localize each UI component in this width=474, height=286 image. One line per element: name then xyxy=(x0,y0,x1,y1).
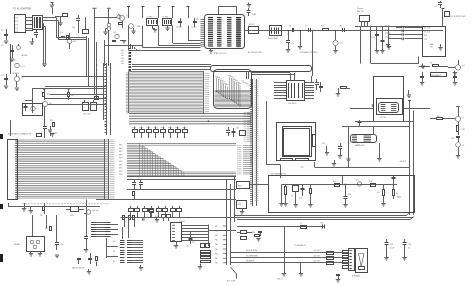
wire U7 drop to ground right xyxy=(377,143,381,161)
routing channel rounded box xyxy=(214,70,252,109)
wire left edge of keyboard area xyxy=(10,120,12,136)
svg-text:C? 0.1: C? 0.1 xyxy=(20,66,25,68)
svg-text:n: n xyxy=(97,64,98,66)
svg-text:D5: D5 xyxy=(462,145,464,147)
wire x315 drop xyxy=(314,162,316,168)
line filter T1 xyxy=(33,16,43,30)
capacitor C1 with ground xyxy=(10,45,14,62)
transistor Q11 in sub box xyxy=(31,106,35,110)
wire main audio line y30 xyxy=(244,30,443,32)
wire frame mid-left xyxy=(25,89,107,114)
capacitor C15 above matrix xyxy=(43,112,47,138)
wire rails to main connector xyxy=(22,77,106,105)
component box B2 xyxy=(237,201,247,209)
svg-text:C23: C23 xyxy=(451,138,454,140)
svg-text:TO SERIAL I/O: TO SERIAL I/O xyxy=(294,244,307,247)
svg-text:K3: K3 xyxy=(113,256,115,258)
ground below matrix 2 xyxy=(29,206,33,213)
capacitor C25 below junction xyxy=(343,185,351,208)
svg-text:Q5: Q5 xyxy=(21,77,24,79)
crystal X1 with box xyxy=(147,17,158,33)
resistor R12 above matrix xyxy=(50,120,55,127)
connector J2 power switch xyxy=(360,16,370,27)
svg-text:R22: R22 xyxy=(45,228,48,230)
svg-text:C13: C13 xyxy=(1,75,4,77)
crystal Y1 ground top xyxy=(247,3,251,8)
wire rail y108 right xyxy=(350,108,430,110)
power rail x94 with flag xyxy=(93,8,97,40)
ground top-left xyxy=(50,5,54,14)
rail y199 xyxy=(96,199,236,201)
svg-text:XTAL: XTAL xyxy=(252,13,256,16)
diode D3 boxed in generator xyxy=(291,185,299,208)
svg-text:RESET: RESET xyxy=(14,244,21,246)
left margin mark 1 xyxy=(1,135,3,139)
capacitor C18 right of U3 xyxy=(319,82,323,92)
svg-text:LCD OUT: LCD OUT xyxy=(313,250,320,252)
svg-text:32 KHZ: 32 KHZ xyxy=(163,17,169,19)
svg-text:232: 232 xyxy=(430,47,433,49)
bus matrix lower horizontal lines xyxy=(127,144,236,176)
ground under Q4 xyxy=(453,71,457,76)
IC U6 reset body xyxy=(27,237,45,252)
wire bundle down to pin column xyxy=(131,44,137,50)
ground left margin xyxy=(1,41,8,47)
capacitor row C46 row4 xyxy=(385,37,422,40)
ground beside D7 xyxy=(103,29,107,35)
wire pullup rows left join xyxy=(389,31,397,47)
label ACTIVE FILTER xyxy=(248,51,262,54)
wire branch y17 to transistor xyxy=(95,17,118,19)
wire from B1 right xyxy=(250,184,268,186)
junction dot generator rail xyxy=(345,184,347,186)
svg-text:K1: K1 xyxy=(113,246,115,248)
CPU U1 pin name column 4 xyxy=(236,18,241,47)
svg-text:K0: K0 xyxy=(113,241,115,243)
power flags row above oscillator parts xyxy=(127,7,190,19)
svg-text:C38: C38 xyxy=(408,244,411,246)
ground below B2 xyxy=(240,208,244,214)
pin header H2 dual row xyxy=(120,241,143,263)
svg-text:n: n xyxy=(97,86,98,88)
signal line WHITE xyxy=(231,261,348,263)
connector J1 ac adapter xyxy=(15,15,34,33)
outer board box bottom edge xyxy=(237,217,414,220)
sub-board box outline right xyxy=(374,77,404,122)
capacitor C48 on box left edge xyxy=(372,104,374,107)
resistor R10 network xyxy=(43,89,51,100)
svg-text:VALUE SELECT: VALUE SELECT xyxy=(72,267,86,270)
capacitor C35 with ground xyxy=(256,232,262,242)
capacitor C36 below lines xyxy=(336,275,340,283)
ground bottom area xyxy=(87,269,91,274)
resistor R22b vertical right in generator xyxy=(393,185,399,200)
transistor Q8 on rail xyxy=(356,180,362,187)
power flag top-left xyxy=(51,3,54,6)
resistor R4 on line xyxy=(321,26,329,31)
wire long bus y217 xyxy=(121,217,414,219)
svg-text:C37: C37 xyxy=(390,244,393,246)
wire from U4 down-left xyxy=(371,57,419,64)
connector CN2 keyboard pins xyxy=(15,140,18,198)
svg-text:VADJ: VADJ xyxy=(397,196,401,199)
svg-text:C3 0.1: C3 0.1 xyxy=(176,27,182,29)
capacitor C49 on bus xyxy=(143,217,145,221)
svg-text:C24: C24 xyxy=(299,198,302,200)
junction dot on rail xyxy=(208,120,210,122)
resistor R9 bottom right corner area xyxy=(419,63,448,67)
inner board box bottom edge xyxy=(234,213,410,216)
svg-text:R21: R21 xyxy=(377,192,380,194)
capacitor C29 bottom area xyxy=(77,259,81,265)
zener D4 in generator xyxy=(308,185,312,208)
svg-text:C10: C10 xyxy=(371,37,374,39)
small box below x85 xyxy=(83,17,89,33)
pin labels under matrix xyxy=(22,203,108,205)
label XTAL OSC under CPU xyxy=(214,52,227,55)
svg-text:VOLUME CONTROL: VOLUME CONTROL xyxy=(300,52,318,54)
speaker SP1 xyxy=(352,249,368,278)
connector CN4 central double rail xyxy=(250,79,257,206)
vertical wire x103 long xyxy=(103,63,105,120)
svg-text:C9: C9 xyxy=(291,43,293,45)
wire left branch y45.5 xyxy=(104,45,143,47)
capacitor C14 in sub box xyxy=(24,104,28,111)
resistor R25 right rail xyxy=(94,95,99,100)
wire entries into central connector upper xyxy=(244,113,253,142)
LCD bottom small box 2 xyxy=(296,159,309,161)
resistor R15 right of U3 xyxy=(341,87,351,89)
capacitor C22 top right mid 2 xyxy=(453,72,457,85)
svg-text:RX_OUT: RX_OUT xyxy=(424,28,430,30)
bus staircase vertical drops xyxy=(140,144,184,177)
svg-text:A0: A0 xyxy=(122,49,124,52)
svg-text:A1: A1 xyxy=(122,52,124,55)
resistor R23 bottom area xyxy=(96,257,98,267)
capacitor C6 on line xyxy=(287,26,294,36)
svg-text:D3: D3 xyxy=(291,196,293,198)
bus region left pin ticks xyxy=(126,73,129,113)
capacitor C24 in generator xyxy=(299,185,305,201)
capacitor C4 xyxy=(191,18,197,29)
connector CN3 right pin column of matrix xyxy=(105,139,115,200)
wire drops from matrix area xyxy=(33,215,57,240)
capacitor C9 drop with ground xyxy=(286,30,294,52)
LED indicator circle below matrix xyxy=(84,210,100,214)
ground on bus xyxy=(155,217,159,222)
svg-text:LCD OUT: LCD OUT xyxy=(313,255,320,257)
signal line GREEN xyxy=(231,255,348,257)
IC U3 top wires xyxy=(252,73,295,81)
svg-text:LCD CONTROLLER: LCD CONTROLLER xyxy=(450,16,466,18)
label Power Switch xyxy=(357,7,365,13)
ground near C15 xyxy=(48,126,52,133)
svg-text:Q8: Q8 xyxy=(356,180,358,182)
svg-text:SW On: SW On xyxy=(357,11,365,13)
svg-text:R17: R17 xyxy=(437,116,440,118)
svg-text:+5V SUP: +5V SUP xyxy=(399,161,407,163)
capacitor row C43 row1 xyxy=(385,26,422,29)
transistor Q10 below J1 xyxy=(17,44,29,57)
diode D1 cluster xyxy=(60,32,69,40)
ground below matrix 1 xyxy=(22,203,26,211)
keyboard matrix wires xyxy=(18,140,105,198)
svg-text:TX_OUT: TX_OUT xyxy=(424,31,430,33)
IC U7 small dip right of LCD xyxy=(351,135,377,147)
vertical rails x409 x414 xyxy=(410,100,414,215)
CPU U1 refdes label xyxy=(196,19,198,21)
LED D5b in right column xyxy=(456,143,465,159)
capacitor C2 left margin xyxy=(1,29,8,40)
pin column left of sheet center xyxy=(129,49,132,71)
wire filter ground returns xyxy=(43,24,46,64)
svg-text:(7): (7) xyxy=(1,45,4,47)
capacitor C26 to top edge xyxy=(392,176,396,185)
capacitor C11 with ground xyxy=(380,27,384,54)
wire vertical from box top to rail xyxy=(342,176,344,185)
connector CN1 pin stubs column xyxy=(105,63,111,135)
wire x86 down xyxy=(86,200,88,238)
terminator resistor column 1 xyxy=(327,252,334,265)
wire branch down from audio line to U3 area xyxy=(312,30,314,76)
resistor R24 xyxy=(252,232,260,237)
svg-text:BACKLIGHT: BACKLIGHT xyxy=(355,144,365,147)
ground x284 bottom xyxy=(277,274,286,281)
svg-text:(G) GREEN/WH: (G) GREEN/WH xyxy=(246,255,258,257)
bus line end labels right of block xyxy=(205,73,210,112)
ground filter return xyxy=(42,64,46,67)
capacitor C28 on x86 xyxy=(84,237,88,253)
svg-text:Q3: Q3 xyxy=(340,43,343,45)
svg-text:Q7: Q7 xyxy=(462,117,464,119)
routing channel horizontal bundle xyxy=(215,90,253,107)
LCD bottom small box 1 xyxy=(281,159,293,161)
wires pipe down to connector xyxy=(247,71,249,79)
ground below U6 1 xyxy=(29,251,33,256)
svg-text:104: 104 xyxy=(186,246,189,248)
svg-text:A5: A5 xyxy=(122,62,124,65)
svg-text:C4 0.1: C4 0.1 xyxy=(191,27,197,29)
wire entries into central connector lower xyxy=(237,146,252,175)
ground below CN5 xyxy=(174,242,178,248)
left margin mark 2 xyxy=(1,205,3,209)
wire x104 down xyxy=(104,40,106,66)
svg-text:R3 1K: R3 1K xyxy=(249,24,255,26)
svg-text:J5 AUX: J5 AUX xyxy=(179,220,186,223)
left margin mark 3 xyxy=(1,255,3,262)
transistor cluster lower left xyxy=(112,32,126,43)
wire rail x360 down xyxy=(361,27,371,64)
IC U5 label xyxy=(380,117,387,119)
capacitor C3 xyxy=(176,18,182,29)
wire stub left y16 xyxy=(55,14,68,26)
pin labels column bottom-middle xyxy=(215,177,235,266)
fuse F1 1A 250V xyxy=(11,44,26,74)
junction dots on audio line xyxy=(287,30,289,32)
svg-text:ACTIVE FILTER: ACTIVE FILTER xyxy=(248,51,262,54)
svg-text:Power: Power xyxy=(357,7,363,10)
svg-text:16 MHZ: 16 MHZ xyxy=(147,17,153,19)
ground under R9 xyxy=(421,64,425,69)
bus conduit rounded pipe xyxy=(211,66,312,72)
resistor R19 on rail xyxy=(333,181,340,187)
wire generator internal rail xyxy=(282,184,398,186)
svg-text:1A 250V: 1A 250V xyxy=(21,54,28,57)
label SHIFT REG xyxy=(12,73,19,75)
routing channel staggered verticals group A xyxy=(215,76,228,99)
sub box mid-left xyxy=(23,104,43,116)
svg-text:C7: C7 xyxy=(305,26,307,28)
svg-text:F1: F1 xyxy=(14,60,16,62)
connector CN2 keyboard body xyxy=(8,140,18,200)
transistor Q3 with ground xyxy=(333,30,343,53)
wire diagonal bottom-middle xyxy=(231,267,237,279)
transistor Q13 right xyxy=(117,15,121,19)
svg-text:R11: R11 xyxy=(71,95,74,97)
wire x348 from right area xyxy=(348,140,350,168)
svg-text:C50: C50 xyxy=(72,27,75,29)
svg-text:n: n xyxy=(97,76,98,78)
svg-text:n: n xyxy=(97,69,98,71)
ground inside U4 xyxy=(438,44,442,50)
connector CN6 output xyxy=(349,249,355,271)
diode D2 below matrix xyxy=(40,203,45,217)
resistor R14 on rail y189 xyxy=(133,192,135,200)
svg-text:K4: K4 xyxy=(113,261,115,263)
capacitor C8 on line xyxy=(339,26,345,33)
power flag above right rails xyxy=(408,100,411,102)
svg-text:RTS: RTS xyxy=(424,35,427,37)
wires into bus pipe from left xyxy=(132,65,211,70)
power flag far right xyxy=(442,9,445,27)
ground right of U3 xyxy=(336,88,340,96)
component cluster below routing channel xyxy=(226,127,246,137)
svg-text:C27: C27 xyxy=(60,244,63,246)
capacitor C37 bottom right xyxy=(384,239,394,260)
svg-text:C33: C33 xyxy=(320,223,323,225)
label bottom-middle xyxy=(227,280,236,283)
resistor R13 below matrix with box xyxy=(66,207,84,218)
IC U3 lcd driver body xyxy=(287,81,305,101)
wire left of LCD down xyxy=(266,101,281,178)
diode row D6 bottom-left-of-right xyxy=(237,231,252,240)
capacitor C17 right of U3 xyxy=(315,79,319,90)
label RESET left of U6 xyxy=(14,244,21,246)
wire rail x94 down xyxy=(95,40,97,99)
wires from H1 right xyxy=(111,225,119,235)
small box above bus xyxy=(150,210,154,218)
capacitor C21 top right mid xyxy=(420,72,424,85)
svg-text:XTAL: XTAL xyxy=(137,25,141,28)
label backlight mid right xyxy=(355,144,365,147)
wire rail y121 right xyxy=(355,121,414,123)
svg-text:A2: A2 xyxy=(122,54,124,57)
svg-text:R9: R9 xyxy=(430,63,432,65)
svg-text:C12: C12 xyxy=(434,6,437,8)
resistor R18 in generator xyxy=(283,185,287,207)
svg-text:TO AC ADAPTER: TO AC ADAPTER xyxy=(13,8,32,11)
capacitor C31 left of stack xyxy=(186,231,193,248)
CPU U1 pin name column 1 xyxy=(208,18,213,47)
svg-text:LCD MOD: LCD MOD xyxy=(288,103,297,105)
IC U3 right pins xyxy=(304,83,314,99)
label +5V near rails xyxy=(399,161,407,163)
wire x284 drop xyxy=(284,227,286,274)
junction dots rail y89 xyxy=(43,89,45,91)
svg-text:R24: R24 xyxy=(252,232,255,234)
ground right of LCD 2 xyxy=(332,160,336,166)
inductor L2 on y226 xyxy=(300,223,307,229)
label under LCD xyxy=(300,167,304,169)
wire CPU top pins up xyxy=(219,6,238,14)
svg-text:0.1: 0.1 xyxy=(408,248,410,250)
power flag above Q7 xyxy=(456,107,460,117)
LCD screen bezel outer xyxy=(283,127,312,157)
LCD screen bezel inner xyxy=(284,129,310,156)
label right inside generator xyxy=(397,196,401,199)
bus lines continuing between blocks xyxy=(129,114,251,124)
capacitor C30 bottom area xyxy=(88,253,92,264)
rail y179 with parts xyxy=(127,179,236,181)
net labels left of H2 xyxy=(113,241,115,263)
svg-text:C34 0.1: C34 0.1 xyxy=(277,279,283,281)
boxed part top right mid xyxy=(431,73,447,78)
wires below matrix xyxy=(8,203,100,207)
resistor R21 vertical in generator xyxy=(377,185,386,207)
diode pair D7 on x109 xyxy=(107,23,110,66)
svg-text:A/D CONV: A/D CONV xyxy=(227,280,236,283)
terminator resistor column 2 xyxy=(343,251,349,269)
svg-text:47uF: 47uF xyxy=(390,248,394,250)
routing channel right labels xyxy=(241,81,253,87)
svg-text:REG: REG xyxy=(238,186,242,188)
capacitor C16 pair on rail xyxy=(132,180,143,190)
svg-text:C25: C25 xyxy=(348,194,351,196)
ground under signal line W xyxy=(299,263,303,277)
capacitor C41 above rail xyxy=(358,120,362,127)
wire +12V rail down xyxy=(87,36,89,87)
connector CN5 body xyxy=(171,220,209,242)
svg-text:K2: K2 xyxy=(113,251,115,253)
svg-text:CTS: CTS xyxy=(424,39,427,41)
relay pair boxes K2 xyxy=(192,242,210,248)
svg-text:Q4: Q4 xyxy=(462,65,465,67)
CPU U1 pin name column 3 xyxy=(227,18,232,47)
svg-text:U5 OSC: U5 OSC xyxy=(380,117,387,119)
transistor Q5 left xyxy=(14,74,23,91)
svg-text:C40: C40 xyxy=(236,128,239,130)
resistor R22 above U6 xyxy=(45,227,52,231)
ground below relay stack xyxy=(198,264,202,270)
svg-text:C8: C8 xyxy=(339,26,341,28)
svg-text:A3: A3 xyxy=(122,57,124,60)
svg-text:Q12: Q12 xyxy=(113,32,116,34)
wire bundle oscillator to CPU xyxy=(129,26,201,51)
net labels right of CN4 xyxy=(255,81,259,201)
svg-text:C19: C19 xyxy=(322,143,325,145)
resistor array row lower xyxy=(129,206,182,218)
svg-text:LCD OUT: LCD OUT xyxy=(313,261,320,263)
CPU U1 body xyxy=(205,15,245,49)
IC U3 left pins xyxy=(274,83,286,99)
svg-text:R4: R4 xyxy=(321,26,323,28)
svg-text:R16: R16 xyxy=(462,129,465,131)
label NI-USB xyxy=(294,244,307,247)
wire y167 horizontal xyxy=(315,167,409,169)
LCD side slot xyxy=(313,135,316,147)
svg-text:C6: C6 xyxy=(289,26,291,28)
label VOLUME CONTROL xyxy=(300,52,318,54)
